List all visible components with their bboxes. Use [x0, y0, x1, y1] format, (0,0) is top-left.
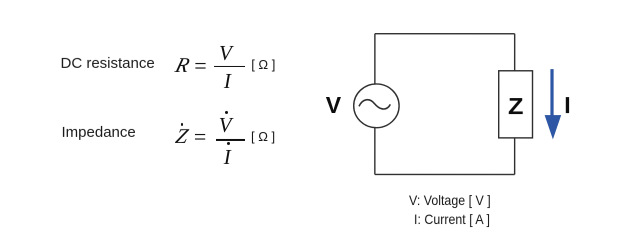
- caption line 1: [408, 194, 490, 208]
- fraction bar 2: [216, 139, 245, 140]
- numerator V: [219, 43, 232, 64]
- unit [Ω] 2: [251, 130, 275, 143]
- denominator I with dot above: [224, 147, 231, 168]
- current arrow I (blue): [545, 69, 562, 139]
- wire: left vertical upper (top to source): [374, 34, 376, 84]
- wire: bottom horizontal: [375, 173, 515, 175]
- label V (source): [326, 94, 341, 117]
- label I (current): [564, 94, 570, 117]
- numerator V with dot above: [219, 115, 232, 136]
- sine wave inside source: [359, 100, 390, 109]
- wire: right vertical lower (Z box to bottom): [514, 138, 516, 175]
- AC voltage source circle: [354, 84, 399, 128]
- unit [Ω] 1: [251, 58, 275, 71]
- equals sign 2: [194, 125, 206, 147]
- fraction bar 1: [214, 66, 246, 67]
- variable Z with dot above: [173, 126, 189, 147]
- label: Impedance: [61, 125, 135, 140]
- wire: top horizontal: [375, 33, 515, 35]
- variable R: [173, 55, 191, 76]
- label: DC resistance: [61, 56, 155, 71]
- wire: left vertical lower (source to bottom): [374, 128, 376, 175]
- label Z (box): [508, 95, 523, 118]
- wire: right vertical upper (top to Z box): [514, 34, 516, 71]
- denominator I: [224, 71, 231, 92]
- caption line 2: [414, 213, 490, 227]
- equals sign 1: [194, 55, 206, 77]
- impedance box Z: [499, 71, 533, 138]
